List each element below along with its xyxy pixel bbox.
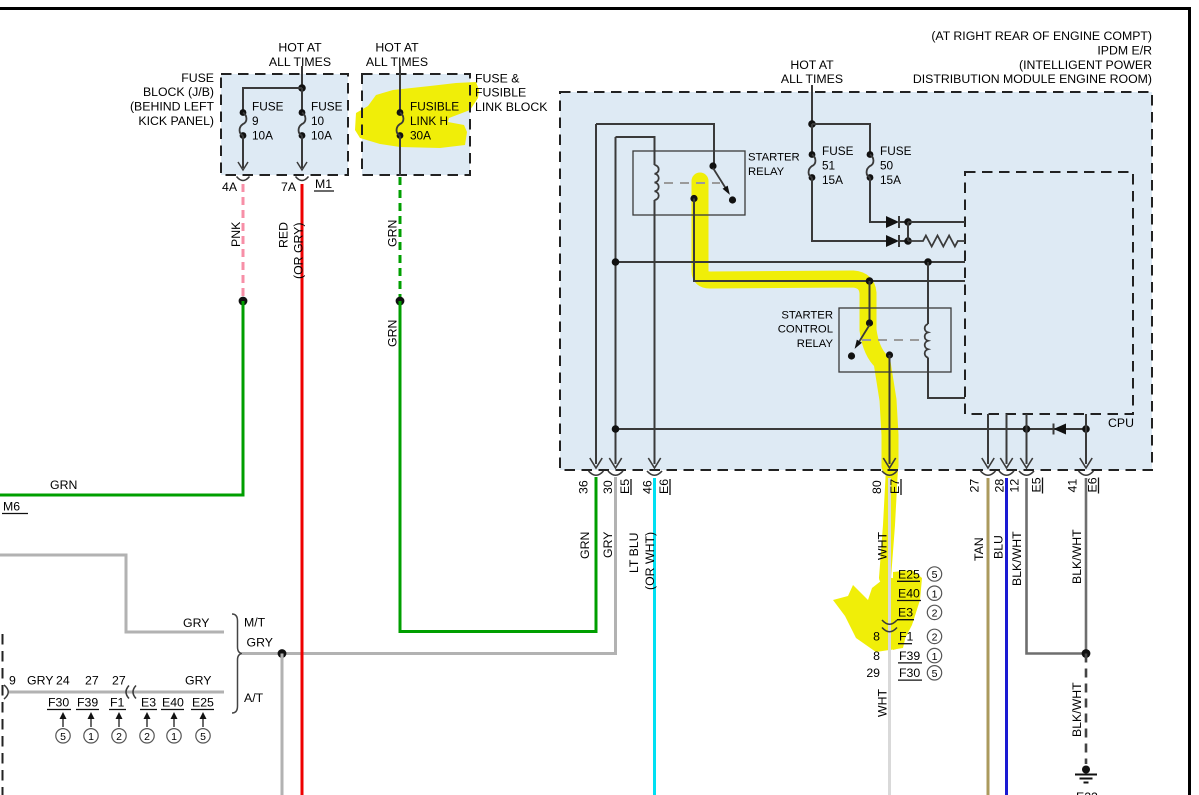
svg-text:12: 12 [1008,479,1022,493]
svg-text:LINK H: LINK H [410,114,448,128]
control relay contact [848,352,855,359]
svg-text:BLOCK (J/B): BLOCK (J/B) [143,85,214,99]
svg-text:5: 5 [60,731,66,743]
svg-text:GRN: GRN [578,532,592,559]
wire fuse block top to fuse 10 [301,88,303,112]
wire CPU output horizontal [616,428,1087,430]
wire feed fuse block [301,66,303,88]
wire GRY A/T branch [9,691,224,694]
node pin 41 [1082,425,1090,433]
svg-text:2: 2 [116,731,122,743]
wire WHT pin 80 [888,478,891,795]
svg-text:27: 27 [112,674,126,688]
svg-text:F1: F1 [899,630,914,644]
svg-text:5: 5 [932,569,938,581]
svg-text:24: 24 [56,674,70,688]
svg-text:F1: F1 [110,695,125,709]
node GRY junction [278,649,287,658]
arrows and circled numbers A/T [62,716,64,727]
wire control coil from node [927,262,929,324]
svg-text:E5: E5 [618,479,632,494]
node lower diode [904,237,912,245]
svg-text:FUSE: FUSE [181,71,214,85]
resistor [908,236,965,247]
wire GRY merged [242,652,617,655]
node splice PNK/GRN [239,297,248,306]
svg-text:(OR GRY): (OR GRY) [292,223,306,279]
svg-text:STARTER: STARTER [748,152,800,164]
wire GRN to M6 [0,301,243,495]
wire fusible link to block bottom [399,136,401,177]
svg-text:27: 27 [85,674,99,688]
node upper diode [904,218,912,226]
fuse 10 10A [299,109,306,116]
fuse 9 10A [240,109,247,116]
pin 30 arrow/cup [609,458,621,468]
starter relay box [633,151,745,215]
svg-text:2: 2 [932,632,938,644]
starter relay link dashed [664,182,720,184]
svg-text:WHT: WHT [876,689,890,717]
pin 46 arrow/cup [648,458,660,468]
node fuse block feed [298,84,306,92]
dashed component edge bottom left [2,634,4,795]
pin 12 arrow/cup [1020,458,1032,468]
page border right [1188,7,1191,795]
svg-text:E40: E40 [898,587,920,601]
wire branch to fuse 9 [243,88,302,112]
svg-text:9: 9 [252,114,259,128]
svg-text:15A: 15A [880,173,901,187]
wire feed fusible link [399,66,401,112]
node pin 12 [1023,425,1031,433]
svg-text:2: 2 [144,731,150,743]
wire to fuse 50 [812,124,870,154]
fuse and fusible link block box [362,74,470,175]
connector cup A/T at left edge [4,685,8,699]
svg-text:2: 2 [932,608,938,620]
wire diode junction [907,222,909,241]
svg-text:4A: 4A [222,180,238,194]
svg-text:CPU: CPU [1108,416,1134,430]
border redraw fusible box [362,74,470,175]
node control coil feed [924,258,932,266]
svg-text:STARTER: STARTER [781,309,833,321]
wire BLK/WHT dashed to ground [1085,654,1088,765]
wire GRY M/T branch [0,555,224,632]
border redraw IPDM box [560,92,1152,470]
starter relay contact [729,196,736,203]
wire TAN pin 27 [987,478,990,795]
wire GRN net top to switch [596,124,714,163]
wire GRY up to IPDM pin 30 [614,477,617,654]
svg-text:(OR WHT): (OR WHT) [643,532,657,590]
wire GRN to IPDM pin 36 [400,301,596,632]
pin 36 arrow/cup [590,458,602,468]
svg-text:F39: F39 [899,649,920,663]
svg-text:GRY: GRY [27,674,53,688]
wire to control switch [869,281,871,321]
svg-text:80: 80 [870,480,884,494]
control relay link dashed [862,339,920,341]
svg-text:E6: E6 [657,479,671,494]
svg-text:BLK/WHT: BLK/WHT [1070,529,1084,584]
svg-text:RELAY: RELAY [748,166,785,178]
diode upper [886,216,899,228]
svg-text:HOT AT: HOT AT [790,58,834,72]
ground E22 [1082,766,1090,774]
svg-text:E7: E7 [888,479,902,494]
svg-text:FUSE &: FUSE & [475,71,520,85]
pin 80 arrow/cup [883,458,895,468]
svg-text:(AT RIGHT REAR OF ENGINE COMPT: (AT RIGHT REAR OF ENGINE COMPT) [931,29,1152,43]
wire GRY net to coil [616,137,655,165]
IPDM E/R box [560,92,1152,470]
wire PNK from 4A [242,184,245,301]
svg-text:46: 46 [641,480,655,494]
wire control coil to CPU [928,358,965,399]
svg-text:28: 28 [993,479,1007,493]
wire fuse 10 to 7A [301,136,303,169]
fuse 50 15A [867,151,874,158]
svg-text:1: 1 [932,651,938,663]
highlight wire starter relay to starter control relay [700,181,890,466]
svg-text:30A: 30A [410,129,431,143]
svg-text:FUSIBLE: FUSIBLE [475,86,526,100]
svg-text:GRY: GRY [185,674,211,688]
fuse 51 15A [809,151,816,158]
CPU box [965,172,1133,414]
svg-text:IPDM E/R: IPDM E/R [1097,43,1152,57]
svg-text:GRN: GRN [386,220,400,247]
svg-text:E6: E6 [1086,477,1100,492]
wire IPDM feed [811,85,813,124]
node CPU output left [612,425,620,433]
svg-text:HOT AT: HOT AT [278,41,322,55]
node GRY-CPU [612,258,620,266]
wire to fuse 51 [811,124,813,154]
svg-text:M/T: M/T [244,616,266,630]
wire LT BLU pin 46 [653,478,656,795]
svg-text:E25: E25 [192,695,214,709]
svg-text:WHT: WHT [876,532,890,560]
wire GRN dashed from fusible link [399,177,402,301]
svg-text:FUSIBLE: FUSIBLE [410,100,459,114]
brace M/T A/T merge [232,614,243,713]
svg-text:41: 41 [1066,479,1080,493]
wire upper to CPU [908,221,965,223]
wire pin 41 [1085,414,1087,464]
svg-text:51: 51 [822,158,835,172]
starter relay switch arm [713,168,727,190]
diode CPU [1054,424,1067,435]
node control relay feed [866,277,874,285]
svg-text:ALL TIMES: ALL TIMES [269,55,331,69]
svg-text:36: 36 [577,480,591,494]
svg-text:M1: M1 [315,177,332,191]
node IPDM feed split [808,120,816,128]
svg-text:ALL TIMES: ALL TIMES [781,72,843,86]
starter control relay coil [925,324,928,358]
starter relay output contact [690,195,697,202]
wire fuse 51 to diode [812,178,886,242]
svg-text:10A: 10A [252,129,273,143]
svg-text:5: 5 [200,731,206,743]
harness break on WHT wire [882,620,897,632]
wire control relay output to pin 80 [889,355,891,464]
starter control relay box [839,308,951,372]
svg-text:DISTRIBUTION MODULE ENGINE ROO: DISTRIBUTION MODULE ENGINE ROOM) [913,72,1152,86]
svg-text:GRY: GRY [247,636,273,650]
svg-text:50: 50 [880,158,894,172]
node BLK/WHT junction [1082,649,1091,658]
wire CPU pin 28 [1006,414,1008,464]
wire GRY down from junction [281,654,284,795]
fuse block (J/B) box [221,74,348,175]
svg-text:10: 10 [311,114,325,128]
starter relay coil [655,165,659,200]
svg-text:CONTROL: CONTROL [778,324,833,336]
svg-text:15A: 15A [822,173,843,187]
wire RED from 7A [301,184,304,795]
svg-text:PNK: PNK [229,221,243,247]
svg-text:1: 1 [932,588,938,600]
svg-text:F39: F39 [77,695,98,709]
svg-text:BLK/WHT: BLK/WHT [1010,531,1024,586]
svg-text:BLK/WHT: BLK/WHT [1070,682,1084,737]
svg-text:F30: F30 [48,695,69,709]
svg-text:1: 1 [171,731,177,743]
svg-text:FUSE: FUSE [252,100,284,114]
svg-text:BLU: BLU [992,535,1006,559]
svg-text:HOT AT: HOT AT [375,41,419,55]
control relay switch arm [858,325,870,344]
wire CPU pin 27 [987,414,989,464]
svg-text:8: 8 [873,630,880,644]
wire starter relay output [694,199,965,282]
svg-text:(INTELLIGENT POWER: (INTELLIGENT POWER [1019,58,1152,72]
wire BLU pin 28 [1005,478,1008,795]
svg-text:FUSE: FUSE [311,100,343,114]
svg-text:9: 9 [9,674,16,688]
svg-text:E22: E22 [1076,790,1098,795]
wire GRY to CPU horizontal [616,261,966,263]
svg-text:1: 1 [88,731,94,743]
wire CPU pin 12 [1026,414,1028,464]
svg-text:KICK PANEL): KICK PANEL) [138,114,214,128]
svg-text:GRN: GRN [50,478,77,492]
svg-text:RED: RED [277,222,291,248]
svg-text:E40: E40 [162,695,184,709]
svg-text:E25: E25 [898,567,920,581]
svg-text:FUSE: FUSE [822,144,854,158]
svg-text:ALL TIMES: ALL TIMES [366,55,428,69]
svg-text:GRY: GRY [183,616,209,630]
highlight wire pin 80 WHT [885,468,892,578]
diode lower [886,235,899,247]
pin 27 arrow/cup [982,458,994,468]
svg-text:LINK BLOCK: LINK BLOCK [475,100,548,114]
svg-text:FUSE: FUSE [880,144,912,158]
wire GRN net pin36 vertical [595,124,597,464]
svg-text:(BEHIND LEFT: (BEHIND LEFT [130,100,215,114]
svg-text:RELAY: RELAY [797,338,834,350]
svg-text:29: 29 [866,666,880,680]
harness break on A/T wire [126,686,136,699]
svg-text:27: 27 [968,479,982,493]
svg-text:30: 30 [601,480,615,494]
svg-text:GRY: GRY [601,532,615,558]
wire BLK/WHT pin 41 [1085,478,1088,654]
pin 28 arrow/cup [1000,458,1012,468]
highlight fusible link [355,82,479,148]
svg-text:10A: 10A [311,129,332,143]
pin 41 arrow/cup [1080,458,1092,468]
wire fuse 9 to 4A [242,136,244,169]
svg-text:E5: E5 [1030,477,1044,492]
svg-text:M6: M6 [3,500,20,514]
page border top [0,7,1191,10]
wire GRY net vertical [615,137,617,464]
svg-text:GRN: GRN [386,320,400,347]
svg-text:TAN: TAN [972,537,986,561]
starter relay switch common [709,162,716,169]
control relay output contact [886,351,893,358]
wire coil to pin 46 [654,200,656,464]
node splice GRN [396,297,405,306]
wire BLK/WHT pin 12 [1027,478,1087,654]
wire fuse 50 to diode [870,178,886,223]
svg-text:7A: 7A [281,180,297,194]
svg-text:F30: F30 [899,666,920,680]
svg-text:E3: E3 [141,695,156,709]
svg-text:5: 5 [932,668,938,680]
control relay switch common [866,319,873,326]
highlight arrow over WHT wire [833,577,918,652]
svg-text:A/T: A/T [244,691,264,705]
svg-text:8: 8 [873,649,880,663]
svg-text:E3: E3 [898,606,913,620]
svg-text:LT BLU: LT BLU [627,532,641,573]
fusible link H 30A [397,109,404,116]
